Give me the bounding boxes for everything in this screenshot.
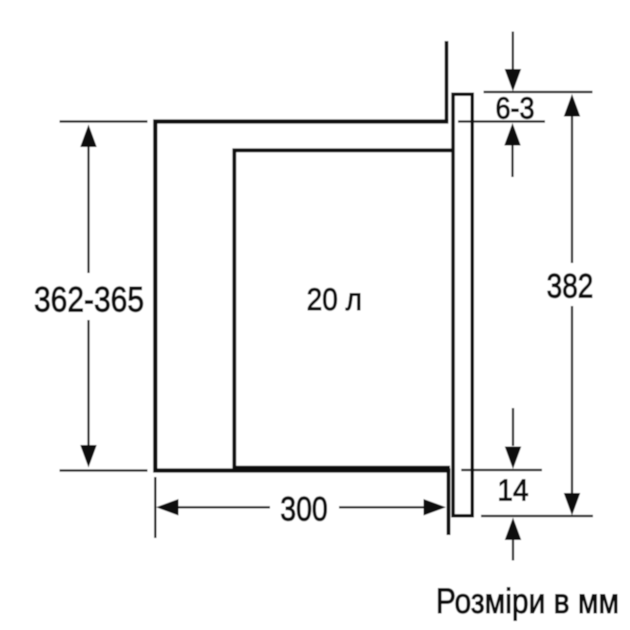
extension line 14 bottom / 382 bottom xyxy=(481,515,593,517)
dimension 6-3 lower arrow shaft xyxy=(511,146,513,178)
extension line 6-3 bottom xyxy=(458,120,545,122)
front panel rectangle xyxy=(453,94,472,516)
dimension 300 arrowhead right xyxy=(424,499,447,516)
dimension 6-3 upper arrowhead down xyxy=(505,69,522,92)
svg-text:300: 300 xyxy=(280,490,328,528)
dimension 14 lower arrow shaft xyxy=(512,540,514,561)
dimension 382 shaft xyxy=(571,115,573,493)
top cabinet wall line xyxy=(445,41,449,122)
svg-text:362-365: 362-365 xyxy=(34,279,144,319)
svg-text:14: 14 xyxy=(497,475,528,508)
dimension 14 upper arrow shaft xyxy=(512,408,514,446)
dimension 362-365 shaft xyxy=(87,145,89,448)
inner cavity outline (top, left, bottom) xyxy=(234,150,452,467)
extension line 6-3 top xyxy=(484,91,593,93)
extension line 14 top xyxy=(461,469,542,471)
dimension 300 shaft xyxy=(179,506,424,508)
dimension 14 upper arrowhead down xyxy=(505,447,522,470)
dimension 300 arrowhead left xyxy=(156,499,179,516)
dimension 6-3 lower arrowhead up xyxy=(504,123,521,146)
extension line top-left xyxy=(60,120,148,122)
extension line below body left (300 dim) xyxy=(154,477,156,538)
dimension 362-365 arrowhead down xyxy=(80,445,97,468)
dimension 362-365 arrowhead up xyxy=(80,125,97,148)
svg-text:6-3: 6-3 xyxy=(495,92,534,126)
appliance body outline (top, left, bottom) xyxy=(155,122,450,471)
dimension 14 lower arrowhead up xyxy=(505,518,522,541)
dimension 382 arrowhead up xyxy=(564,94,581,117)
dimension 6-3 upper arrow shaft xyxy=(512,32,514,71)
extension line bottom-left xyxy=(60,469,148,471)
svg-text:382: 382 xyxy=(547,267,594,305)
bottom cabinet wall line xyxy=(447,471,451,536)
dimension 382 arrowhead down xyxy=(564,493,581,516)
svg-text:20 л: 20 л xyxy=(307,283,362,318)
svg-text:Розміри в мм: Розміри в мм xyxy=(436,582,619,621)
